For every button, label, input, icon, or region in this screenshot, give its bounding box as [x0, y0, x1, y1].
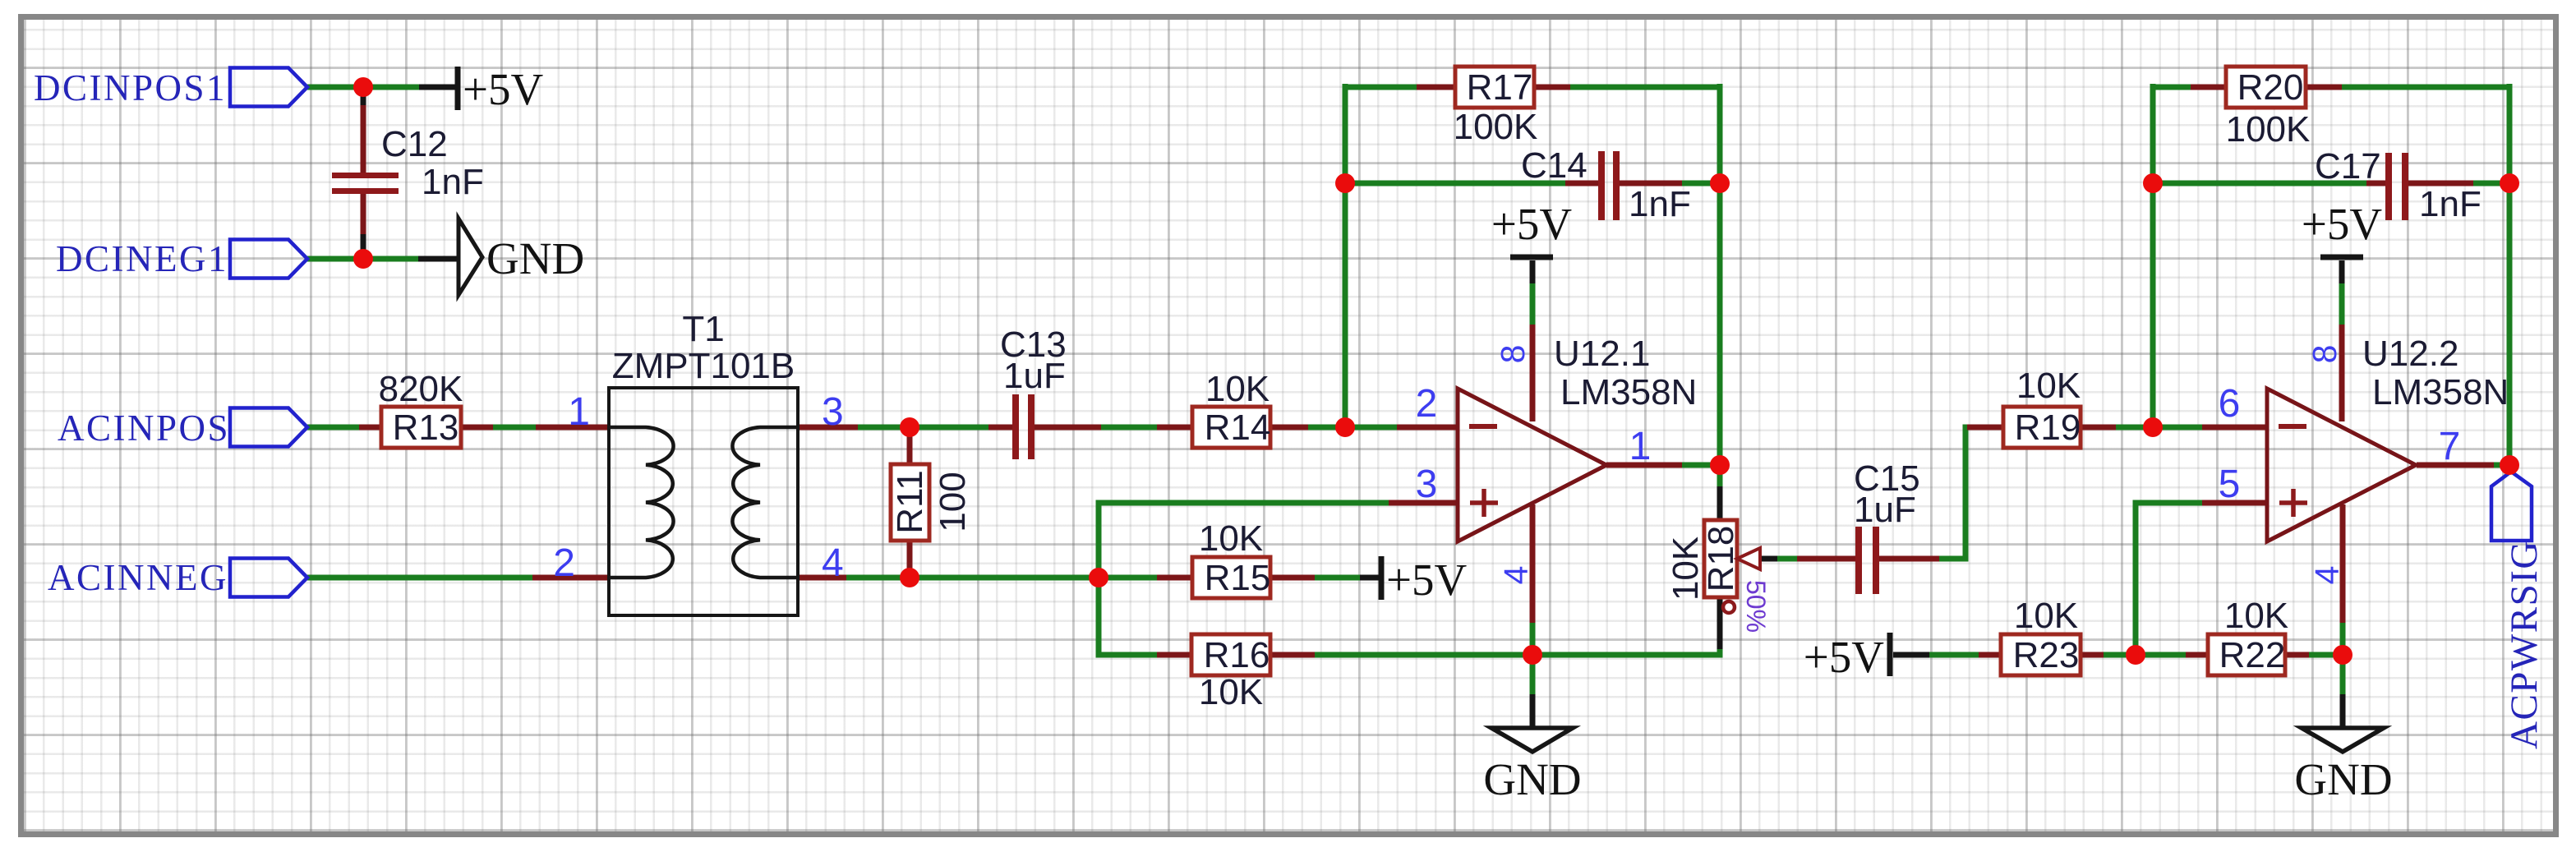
svg-text:8: 8 — [2306, 345, 2343, 364]
svg-text:1nF: 1nF — [2419, 184, 2482, 224]
svg-text:6: 6 — [2219, 382, 2241, 426]
svg-text:R22: R22 — [2219, 635, 2286, 675]
svg-text:C14: C14 — [1521, 145, 1588, 186]
svg-text:+5V: +5V — [1491, 199, 1573, 249]
svg-text:10K: 10K — [1205, 369, 1270, 409]
svg-text:GND: GND — [2294, 754, 2392, 804]
svg-text:R15: R15 — [1205, 558, 1271, 598]
svg-text:U12.2: U12.2 — [2362, 334, 2458, 374]
svg-text:R17: R17 — [1467, 67, 1533, 108]
svg-text:100: 100 — [933, 472, 973, 532]
svg-text:2: 2 — [553, 541, 575, 585]
svg-text:7: 7 — [2439, 425, 2461, 468]
svg-text:DCINPOS1: DCINPOS1 — [34, 67, 227, 108]
svg-text:C17: C17 — [2315, 146, 2381, 187]
svg-text:10K: 10K — [1199, 518, 1263, 559]
svg-text:10K: 10K — [1199, 672, 1263, 712]
svg-text:R14: R14 — [1205, 408, 1271, 448]
svg-text:10K: 10K — [2224, 596, 2288, 636]
svg-text:820K: 820K — [379, 369, 463, 409]
svg-text:T1: T1 — [682, 309, 724, 349]
svg-text:U12.1: U12.1 — [1554, 334, 1650, 374]
svg-text:ACPWRSIG: ACPWRSIG — [2503, 540, 2546, 749]
svg-text:1nF: 1nF — [422, 162, 484, 202]
svg-text:LM358N: LM358N — [1560, 372, 1697, 412]
svg-text:1uF: 1uF — [1854, 490, 1916, 530]
svg-text:10K: 10K — [2014, 596, 2078, 636]
svg-text:8: 8 — [1494, 345, 1532, 364]
svg-text:GND: GND — [1483, 754, 1581, 804]
svg-text:5: 5 — [2219, 463, 2241, 506]
svg-text:10K: 10K — [1666, 537, 1706, 601]
svg-text:3: 3 — [822, 390, 844, 434]
svg-text:R13: R13 — [393, 408, 459, 448]
svg-text:ZMPT101B: ZMPT101B — [612, 346, 795, 386]
svg-text:R11: R11 — [890, 470, 930, 533]
svg-text:C12: C12 — [381, 124, 448, 164]
svg-text:4: 4 — [2308, 566, 2346, 585]
svg-text:+5V: +5V — [463, 64, 544, 114]
svg-text:50%: 50% — [1741, 580, 1771, 633]
svg-text:ACINPOS: ACINPOS — [58, 408, 230, 449]
svg-text:+5V: +5V — [2302, 199, 2383, 249]
svg-text:R20: R20 — [2237, 67, 2304, 108]
svg-text:4: 4 — [822, 541, 844, 585]
svg-text:R19: R19 — [2015, 408, 2081, 448]
svg-text:R18: R18 — [1701, 526, 1741, 592]
svg-text:GND: GND — [486, 233, 584, 283]
svg-text:3: 3 — [1416, 463, 1438, 506]
svg-text:2: 2 — [1416, 382, 1438, 426]
svg-text:1nF: 1nF — [1629, 184, 1691, 224]
svg-text:1: 1 — [568, 390, 590, 434]
svg-text:R16: R16 — [1204, 635, 1270, 675]
svg-text:R23: R23 — [2013, 635, 2080, 675]
svg-text:1: 1 — [1629, 425, 1652, 468]
svg-text:1uF: 1uF — [1003, 356, 1066, 396]
svg-text:100K: 100K — [2226, 109, 2311, 150]
svg-text:+5V: +5V — [1386, 555, 1468, 605]
svg-text:10K: 10K — [2016, 366, 2081, 406]
svg-text:100K: 100K — [1454, 107, 1538, 147]
svg-text:+5V: +5V — [1804, 632, 1885, 682]
svg-text:ACINNEG: ACINNEG — [48, 557, 228, 598]
svg-text:DCINEG1: DCINEG1 — [56, 238, 228, 279]
svg-text:4: 4 — [1497, 566, 1535, 585]
svg-text:LM358N: LM358N — [2372, 372, 2509, 412]
